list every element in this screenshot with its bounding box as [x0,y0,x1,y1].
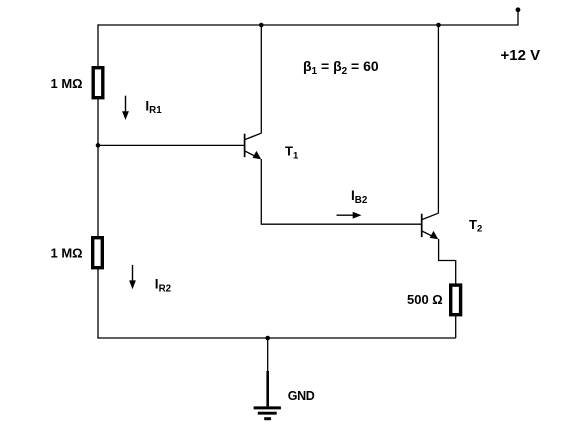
arrow I_R1 current direction [122,96,129,120]
node: T2 collector junction on top rail [436,23,441,28]
node: ground junction on bottom rail [265,336,270,341]
wire: T1 base wire [98,144,245,146]
wire: T2 collector to top rail [437,25,439,213]
transistor T1 [245,133,262,159]
wire: resistor R3 to bottom rail [455,314,457,338]
wire: bottom rail [97,337,455,339]
arrow I_B2 base current [337,212,362,219]
wire: ground stem thin segment [267,338,269,371]
svg-text:1 MΩ: 1 MΩ [51,76,83,91]
svg-text:500 Ω: 500 Ω [407,292,443,307]
node: T1 collector junction on top rail [259,23,264,28]
wire: T1 collector to top rail [260,25,262,133]
resistor R2 1 MOhm [93,238,103,268]
arrow I_R2 current direction [129,265,136,289]
resistor R3 500 Ohm [451,285,461,315]
wire: +12V terminal stub [517,10,519,26]
ground symbol [254,408,281,419]
wire: ground stem thick segment [266,371,269,406]
node: divider junction to T1 base [96,143,101,148]
resistor R1 1 MOhm [93,68,103,98]
wire: T1 emitter down [260,159,262,224]
wire: top supply rail [98,24,519,26]
svg-text:GND: GND [288,389,315,403]
transistor T2 [422,213,439,239]
wire: T1 emitter to T2 base [261,223,422,225]
wire: T2 emitter to 500 Ohm resistor [439,239,456,284]
svg-text:1 MΩ: 1 MΩ [51,245,83,260]
wire: left vertical branch [97,24,99,338]
svg-text:+12 V: +12 V [501,47,541,64]
terminal dot +12V [516,7,521,12]
